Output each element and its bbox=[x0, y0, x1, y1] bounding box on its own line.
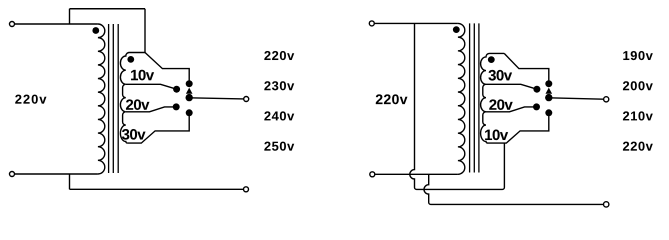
secondary chain winding (10v,20v,30v sections) bbox=[120, 53, 145, 144]
label: winding 10v bbox=[131, 70, 154, 81]
wire: drop to common bottom rail bbox=[69, 174, 71, 189]
contact dot: 240v tap bbox=[173, 103, 180, 110]
primary winding (220v) bbox=[98, 24, 105, 174]
wire: 190v tap lead to selector (chain top) bbox=[504, 53, 549, 83]
terminal: output common (right) bbox=[604, 202, 609, 207]
wire: 250v tap lead (30v winding bottom) bbox=[127, 113, 189, 143]
wire: 240v tap lead (20v winding bottom) bbox=[126, 107, 176, 112]
contact dot: 220v tap (right) bbox=[545, 109, 552, 116]
contact dot: 220v tap bbox=[186, 80, 193, 87]
label: output list 240v bbox=[264, 111, 294, 120]
contact dot: 250v tap bbox=[186, 109, 193, 116]
wire: buck riser from input top, hop over input bottom wire, to chain bottom riser bbox=[410, 23, 505, 189]
label: output list 220v bbox=[264, 51, 294, 60]
label: primary voltage 220v (right) bbox=[376, 94, 408, 104]
selector wiper arrow (right) bbox=[546, 88, 553, 94]
wire: input top to primary winding top bbox=[15, 23, 98, 25]
wire: drop from input bottom, hop over buck wire, to common bottom rail bbox=[424, 174, 603, 204]
polarity dot: secondary top (right) bbox=[488, 56, 495, 63]
wire: output to terminal bbox=[189, 98, 243, 99]
wire: 220v tap lead (10v winding bottom / buck node) bbox=[487, 113, 548, 143]
label: winding 20v (right) bbox=[489, 99, 512, 110]
secondary chain winding (30v,20v,10v sections, right) bbox=[481, 53, 505, 143]
polarity dot: secondary top bbox=[127, 56, 134, 63]
wire: top rail bbox=[70, 8, 146, 10]
transformer core (3 lines) bbox=[109, 24, 119, 173]
terminal: input bottom-left bbox=[10, 172, 15, 177]
wire: riser from input wire to top rail bbox=[69, 9, 71, 24]
label: output list 210v bbox=[623, 111, 653, 120]
polarity dot: primary top (right) bbox=[453, 26, 460, 33]
wire: input bottom to primary winding bottom (right) bbox=[375, 173, 458, 175]
wire: top rail drop to secondary chain top bbox=[144, 9, 146, 53]
wire: 200v tap lead (30v winding bottom) bbox=[486, 84, 537, 89]
selector wiper dot bbox=[186, 94, 193, 101]
contact dot: 210v tap bbox=[533, 103, 540, 110]
wire: input top to primary winding top (right) bbox=[375, 22, 458, 24]
label: output list 250v bbox=[264, 142, 294, 151]
terminal: input top-left bbox=[10, 22, 15, 27]
terminal: input bottom-left (right circuit) bbox=[370, 172, 375, 177]
wire: output to terminal (right) bbox=[549, 98, 604, 99]
selector wiper dot (right) bbox=[545, 94, 552, 101]
terminal: output common bbox=[244, 187, 249, 192]
label: primary voltage 220v bbox=[15, 95, 46, 104]
label: winding 20v bbox=[126, 99, 149, 110]
contact dot: 190v tap bbox=[545, 80, 552, 87]
contact dot: 230v tap bbox=[173, 86, 180, 93]
label: winding 30v bbox=[122, 129, 146, 140]
label: winding 30v (right) bbox=[488, 70, 512, 81]
wire: common bottom rail bbox=[70, 188, 244, 190]
wire: input bottom to primary winding bottom bbox=[15, 173, 98, 175]
contact dot: 200v tap bbox=[533, 86, 540, 93]
transformer core (3 lines, right) bbox=[470, 23, 479, 172]
terminal: output (right) bbox=[604, 97, 609, 102]
label: output list 200v bbox=[623, 81, 653, 90]
label: winding 10v (right) bbox=[485, 130, 508, 141]
label: output list 220v (right) bbox=[623, 142, 653, 151]
terminal: input top-left (right circuit) bbox=[369, 21, 374, 26]
terminal: output bbox=[244, 97, 249, 102]
polarity dot: primary top bbox=[92, 27, 99, 34]
wire: 220v tap lead to selector bbox=[145, 53, 189, 84]
label: output list 230v bbox=[264, 81, 294, 90]
wire: 210v tap lead (20v winding bottom) bbox=[486, 107, 537, 112]
wire: 230v tap lead (10v winding bottom) bbox=[126, 84, 177, 89]
selector wiper arrow bbox=[186, 88, 193, 94]
label: output list 190v bbox=[623, 51, 652, 60]
primary winding (220v, right) bbox=[458, 23, 465, 174]
